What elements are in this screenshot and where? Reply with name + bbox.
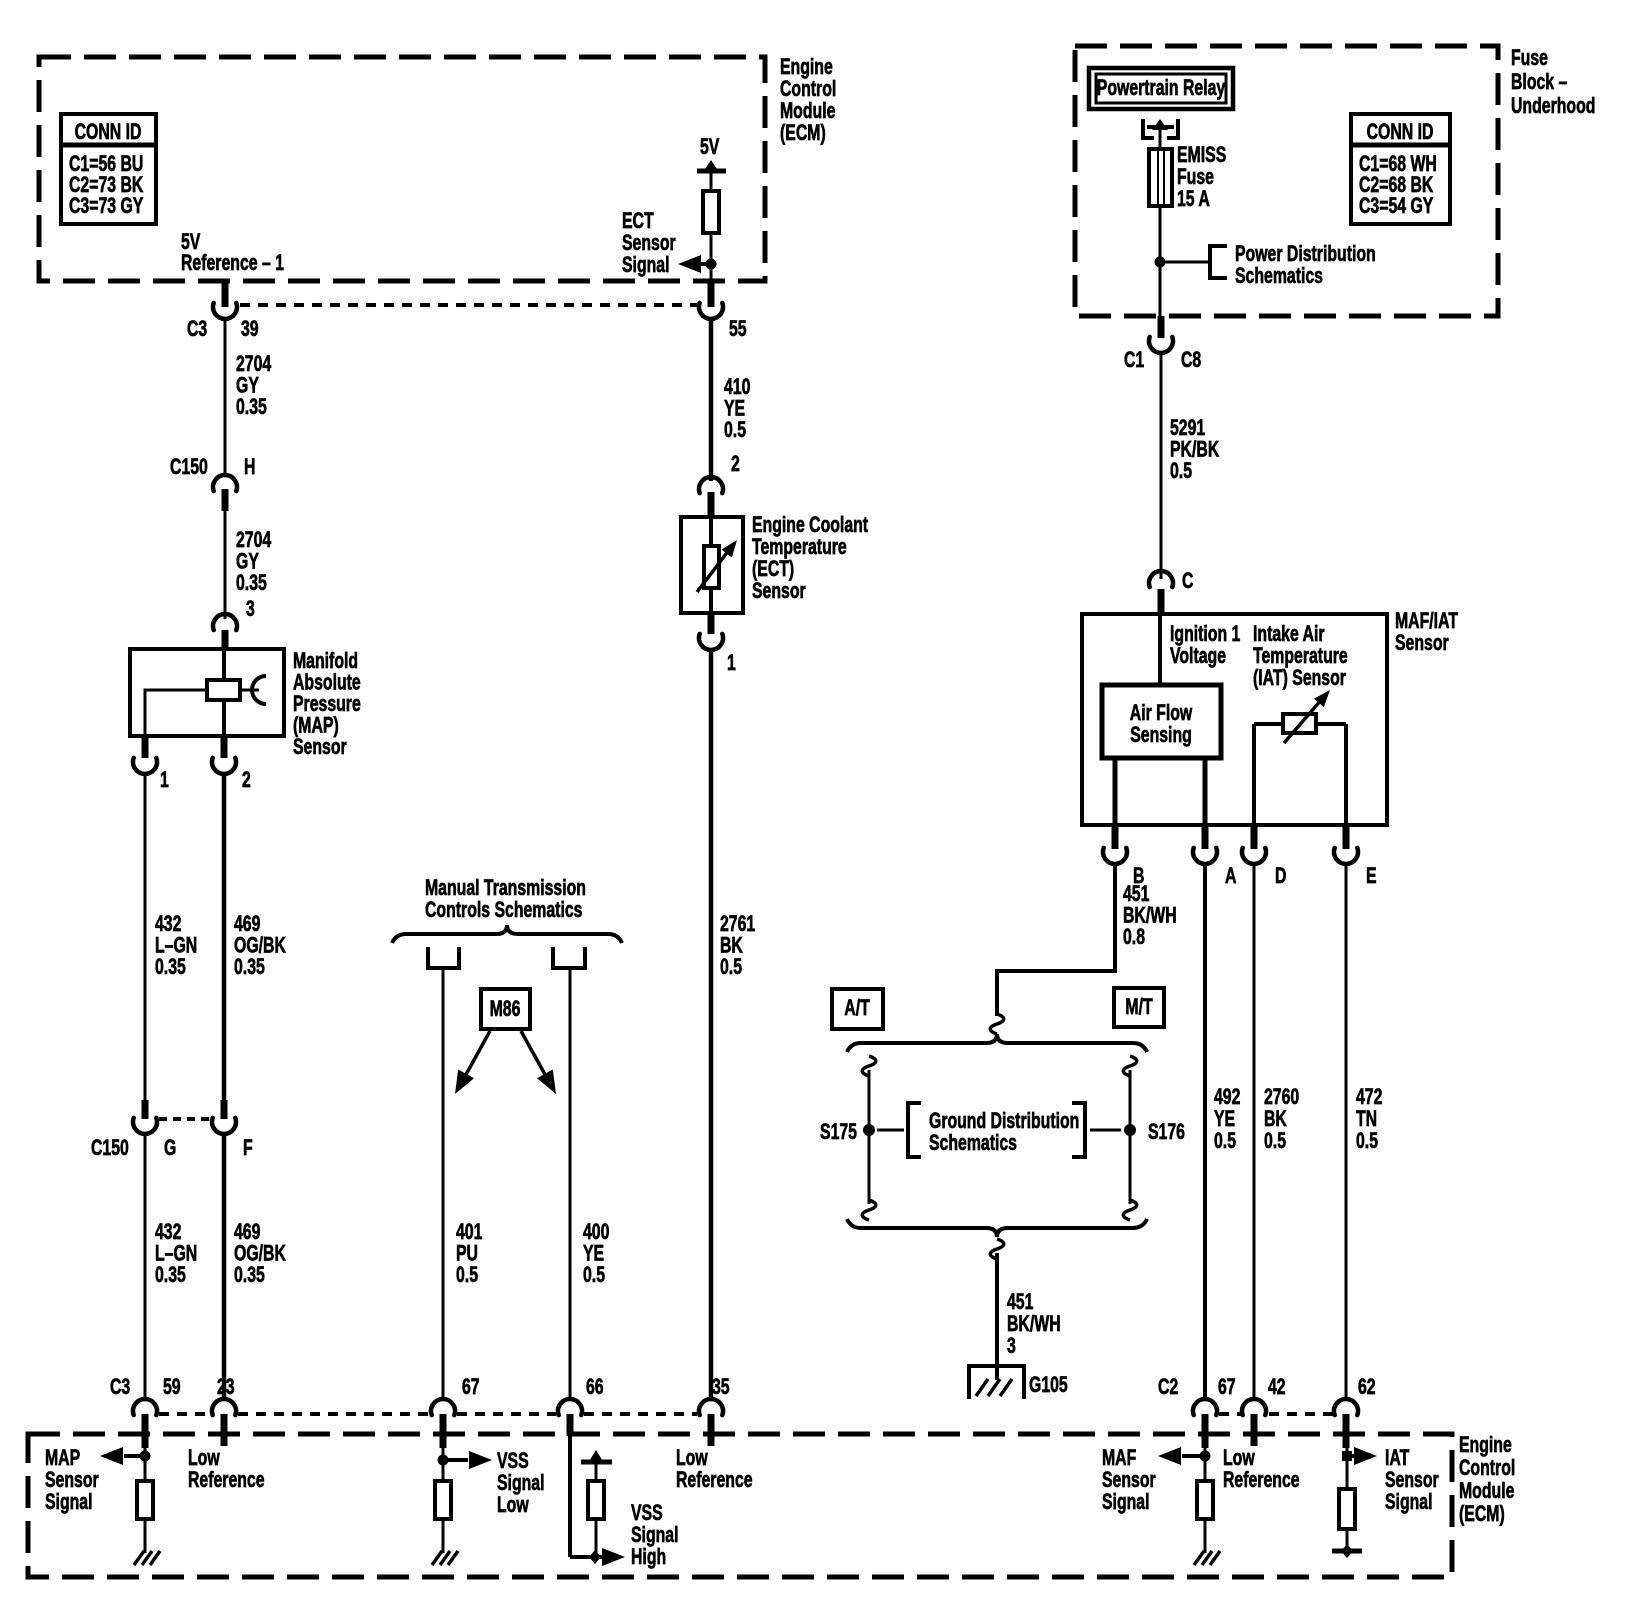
- connector half-box VSS high: [553, 947, 585, 968]
- connector dotted tie line (top): [240, 303, 697, 307]
- svg-text:C150: C150: [170, 456, 208, 480]
- svg-text:C3=54 GY: C3=54 GY: [1359, 195, 1434, 219]
- svg-text:Reference – 1: Reference – 1: [181, 252, 284, 276]
- svg-text:Schematics: Schematics: [929, 1132, 1017, 1156]
- svg-text:GY: GY: [236, 550, 259, 574]
- wire MAF resistor to ground: [1204, 1519, 1207, 1553]
- svg-text:Controls Schematics: Controls Schematics: [425, 899, 582, 923]
- ECM (top) dashed box: [39, 57, 765, 281]
- svg-text:Low: Low: [1223, 1447, 1255, 1471]
- ground MAF input: [1194, 1551, 1204, 1565]
- wire 401 PU 0.5: [442, 968, 445, 1399]
- wire 2704 GY 0.35 upper: [224, 319, 227, 477]
- svg-text:Temperature: Temperature: [752, 536, 847, 560]
- svg-text:Air Flow: Air Flow: [1130, 702, 1193, 726]
- brace ground distribution top: [847, 1034, 1147, 1052]
- svg-text:EMISS: EMISS: [1177, 144, 1226, 168]
- svg-text:Signal: Signal: [497, 1472, 545, 1496]
- svg-text:E: E: [1366, 865, 1377, 889]
- connector MAF pin D: [1251, 827, 1258, 849]
- svg-text:55: 55: [729, 318, 747, 342]
- MAF/IAT sensor box: [1082, 614, 1387, 825]
- MAP sensor signal branch: [144, 1447, 147, 1481]
- wire relay to fuse: [1159, 130, 1162, 149]
- ground G105: [969, 1366, 1024, 1399]
- svg-text:0.5: 0.5: [456, 1264, 478, 1288]
- svg-text:ECT: ECT: [622, 210, 654, 234]
- svg-text:469: 469: [234, 1221, 260, 1245]
- svg-text:0.8: 0.8: [1123, 926, 1145, 950]
- ECT thermistor element: [704, 546, 719, 588]
- wire S176 branch: [1123, 1056, 1137, 1076]
- svg-text:C3=73 GY: C3=73 GY: [69, 195, 144, 219]
- wire 410 YE 0.5: [709, 319, 714, 481]
- node power distribution junction: [1155, 257, 1166, 268]
- svg-text:432: 432: [155, 913, 181, 937]
- svg-text:Reference: Reference: [1223, 1469, 1300, 1493]
- svg-text:0.35: 0.35: [236, 396, 267, 420]
- connector C3 pin 55 (ECM): [708, 281, 715, 307]
- node S175: [863, 1124, 875, 1136]
- svg-text:66: 66: [586, 1376, 604, 1400]
- connector half-box VSS low: [428, 947, 459, 968]
- svg-text:Sensor: Sensor: [45, 1469, 99, 1493]
- wire MAP resistor to ground: [144, 1519, 147, 1553]
- svg-text:Underhood: Underhood: [1511, 95, 1595, 119]
- CONN ID table (fuse block): [1351, 114, 1450, 224]
- svg-text:451: 451: [1007, 1291, 1034, 1315]
- svg-text:472: 472: [1356, 1086, 1382, 1110]
- svg-text:2704: 2704: [236, 529, 272, 553]
- svg-text:0.35: 0.35: [234, 956, 265, 980]
- svg-text:(IAT) Sensor: (IAT) Sensor: [1253, 667, 1346, 691]
- tick S176 to bracket: [1090, 1129, 1121, 1132]
- wire 469 OG/BK upper: [222, 775, 227, 1100]
- wire 469 OG/BK lower: [222, 1135, 227, 1399]
- svg-text:3: 3: [1007, 1335, 1016, 1359]
- svg-text:0.35: 0.35: [236, 572, 267, 596]
- svg-text:0.5: 0.5: [724, 419, 746, 443]
- svg-text:Sensor: Sensor: [1395, 632, 1449, 656]
- A/T callout box: [832, 989, 883, 1029]
- svg-text:C3: C3: [110, 1376, 130, 1400]
- svg-text:Sensor: Sensor: [622, 232, 676, 256]
- wire 472 TN 0.5: [1345, 865, 1348, 1399]
- wire 432 L-GN lower: [144, 1135, 147, 1399]
- svg-text:BK/WH: BK/WH: [1123, 904, 1177, 928]
- wire to power distribution bracket: [1160, 261, 1209, 264]
- IAT thermistor network: [1252, 724, 1256, 827]
- svg-text:PK/BK: PK/BK: [1170, 438, 1219, 462]
- M86 callout box: [481, 989, 530, 1029]
- svg-text:0.5: 0.5: [1356, 1130, 1378, 1154]
- svg-text:Powertrain Relay: Powertrain Relay: [1097, 77, 1226, 101]
- connector C3 pin 39 (ECM): [222, 281, 229, 307]
- svg-text:Signal: Signal: [1385, 1491, 1433, 1515]
- ground MAP input: [134, 1551, 144, 1565]
- IAT bias rail: [1332, 1549, 1362, 1554]
- svg-text:A/T: A/T: [844, 997, 870, 1021]
- svg-text:67: 67: [1218, 1376, 1236, 1400]
- svg-text:L–GN: L–GN: [155, 1242, 197, 1266]
- wire air flow pin B internal: [1113, 758, 1118, 827]
- svg-text:2761: 2761: [720, 913, 756, 937]
- VSS signal high branch: [568, 1434, 572, 1557]
- arrow M86 right: [521, 1031, 548, 1080]
- resistor MAF input: [1197, 1481, 1213, 1519]
- wire 451 BK/WH 3 to ground: [990, 1239, 1004, 1259]
- svg-text:0.5: 0.5: [720, 956, 742, 980]
- svg-text:Manifold: Manifold: [293, 650, 358, 674]
- svg-text:0.5: 0.5: [1214, 1130, 1236, 1154]
- svg-text:0.35: 0.35: [155, 956, 186, 980]
- svg-text:(ECM): (ECM): [1459, 1503, 1505, 1527]
- svg-text:Ground Distribution: Ground Distribution: [929, 1110, 1079, 1134]
- wire MAP internal left: [145, 690, 207, 736]
- svg-text:Module: Module: [780, 100, 835, 124]
- wire air flow pin A internal: [1203, 758, 1208, 827]
- MAP port symbol: [252, 676, 266, 704]
- svg-text:1: 1: [727, 652, 736, 676]
- CONN ID table (ECM): [61, 114, 156, 224]
- svg-text:Block –: Block –: [1511, 71, 1568, 95]
- resistor MAP input: [137, 1481, 153, 1519]
- connector MAF pin B: [1112, 827, 1119, 849]
- svg-text:Low: Low: [497, 1494, 529, 1518]
- wire ignition feed internal: [1158, 616, 1162, 685]
- svg-text:Temperature: Temperature: [1253, 645, 1348, 669]
- svg-text:Engine Coolant: Engine Coolant: [752, 514, 869, 538]
- svg-text:Low: Low: [676, 1447, 708, 1471]
- svg-text:Module: Module: [1459, 1480, 1514, 1504]
- svg-text:VSS: VSS: [497, 1450, 529, 1474]
- connector dotted tie line (bottom right): [1219, 1412, 1241, 1416]
- wire 2761 BK 0.5: [709, 651, 714, 1399]
- svg-text:(ECM): (ECM): [780, 122, 826, 146]
- svg-text:BK/WH: BK/WH: [1007, 1313, 1061, 1337]
- svg-text:Intake Air: Intake Air: [1253, 623, 1325, 647]
- wire VSS low to ground: [442, 1519, 445, 1553]
- svg-text:62: 62: [1358, 1376, 1376, 1400]
- svg-text:Power Distribution: Power Distribution: [1235, 243, 1376, 267]
- svg-text:35: 35: [712, 1376, 730, 1400]
- svg-text:YE: YE: [724, 397, 745, 421]
- MAP pressure element: [207, 680, 240, 700]
- svg-text:C8: C8: [1181, 349, 1202, 373]
- svg-text:Manual Transmission: Manual Transmission: [425, 877, 586, 901]
- svg-text:MAP: MAP: [45, 1447, 80, 1471]
- node S176: [1124, 1124, 1136, 1136]
- bracket ground distribution left: [908, 1103, 921, 1157]
- IAT thermistor element: [1283, 714, 1316, 733]
- svg-text:5291: 5291: [1170, 417, 1206, 441]
- IAT sensor signal branch: [1346, 1447, 1349, 1489]
- svg-text:C: C: [1182, 570, 1194, 594]
- Fuse Block - Underhood dashed box: [1075, 46, 1498, 316]
- bracket ground distribution right: [1072, 1103, 1085, 1157]
- resistor VSS high: [595, 1462, 598, 1481]
- wire resistor to ECM border: [710, 233, 713, 283]
- svg-text:Ignition 1: Ignition 1: [1170, 623, 1241, 647]
- svg-text:410: 410: [724, 376, 750, 400]
- svg-text:PU: PU: [456, 1242, 478, 1266]
- svg-text:5V: 5V: [700, 136, 720, 160]
- svg-text:YE: YE: [583, 1242, 604, 1266]
- wire IAT resistor to rail: [1346, 1529, 1349, 1551]
- connector C150 tie dashes: [159, 1117, 211, 1121]
- svg-text:G: G: [164, 1137, 176, 1161]
- svg-text:CONN ID: CONN ID: [75, 121, 142, 145]
- svg-text:G105: G105: [1029, 1374, 1068, 1398]
- svg-text:Sensor: Sensor: [293, 736, 347, 760]
- connector C150 pin G: [142, 1100, 149, 1119]
- svg-text:Sensor: Sensor: [1385, 1469, 1439, 1493]
- M/T callout box: [1114, 988, 1164, 1027]
- svg-text:0.35: 0.35: [234, 1264, 265, 1288]
- svg-text:3: 3: [246, 598, 255, 622]
- svg-text:492: 492: [1214, 1086, 1240, 1110]
- svg-text:0.5: 0.5: [1170, 460, 1192, 484]
- connector MAP pin 1: [142, 736, 149, 758]
- wire S175 branch: [862, 1056, 876, 1076]
- relay output clip: [1143, 119, 1154, 138]
- svg-text:(ECT): (ECT): [752, 558, 794, 582]
- svg-text:MAF/IAT: MAF/IAT: [1395, 610, 1458, 634]
- ECM (bottom) dashed box: [28, 1434, 1452, 1577]
- connector dotted tie line (bottom left): [159, 1412, 210, 1416]
- svg-text:Engine: Engine: [780, 56, 833, 80]
- svg-text:23: 23: [217, 1376, 235, 1400]
- MAP sensor box: [130, 649, 284, 736]
- svg-text:59: 59: [163, 1376, 181, 1400]
- svg-text:F: F: [243, 1137, 253, 1161]
- wire 5V to resistor: [710, 172, 713, 191]
- brace ground distribution bottom: [847, 1219, 1147, 1237]
- svg-text:H: H: [244, 456, 255, 480]
- ground VSS low: [432, 1551, 442, 1565]
- connector ECT pin 1: [708, 613, 715, 634]
- arrow M86 left: [463, 1031, 490, 1080]
- svg-text:A: A: [1225, 865, 1237, 889]
- svg-text:Fuse: Fuse: [1177, 166, 1214, 190]
- svg-text:TN: TN: [1356, 1108, 1377, 1132]
- ECT sensor box: [681, 517, 743, 613]
- svg-text:Signal: Signal: [631, 1524, 679, 1548]
- svg-text:2704: 2704: [236, 353, 272, 377]
- svg-text:451: 451: [1123, 883, 1150, 907]
- svg-text:42: 42: [1268, 1376, 1286, 1400]
- svg-text:OG/BK: OG/BK: [234, 934, 286, 958]
- Air Flow Sensing box: [1102, 685, 1221, 758]
- svg-text:2: 2: [242, 769, 251, 793]
- svg-text:CONN ID: CONN ID: [1367, 121, 1434, 145]
- svg-text:High: High: [631, 1546, 666, 1570]
- ECT variable arrow: [697, 550, 729, 592]
- svg-text:2: 2: [731, 453, 740, 477]
- wire 2760 BK 0.5: [1253, 865, 1256, 1399]
- svg-text:BK: BK: [1264, 1108, 1287, 1132]
- svg-text:39: 39: [241, 318, 259, 342]
- svg-text:Absolute: Absolute: [293, 671, 361, 695]
- wire MAP internal right: [240, 689, 259, 692]
- svg-text:Signal: Signal: [1102, 1491, 1150, 1515]
- brace manual transmission: [392, 925, 622, 943]
- svg-text:469: 469: [234, 913, 260, 937]
- svg-text:Signal: Signal: [622, 254, 670, 278]
- svg-text:0.5: 0.5: [1264, 1130, 1286, 1154]
- svg-text:401: 401: [456, 1221, 483, 1245]
- svg-text:Fuse: Fuse: [1511, 47, 1548, 71]
- svg-text:1: 1: [160, 769, 169, 793]
- wire fuse to connector C1: [1159, 206, 1162, 316]
- connector MAF pin E: [1343, 827, 1350, 849]
- svg-text:C150: C150: [91, 1137, 129, 1161]
- wire MAP internal bottom: [222, 699, 226, 736]
- wire ECT signal arrow: [695, 262, 711, 266]
- svg-text:Sensing: Sensing: [1130, 724, 1192, 748]
- tick S175 to bracket: [877, 1129, 904, 1132]
- svg-text:Engine: Engine: [1459, 1434, 1512, 1458]
- svg-text:C3: C3: [187, 318, 207, 342]
- svg-text:VSS: VSS: [631, 1502, 663, 1526]
- connector MAF pin A: [1202, 827, 1209, 849]
- wire 451 BK/WH 0.8: [1113, 865, 1117, 971]
- svg-text:IAT: IAT: [1385, 1447, 1410, 1471]
- svg-text:Sensor: Sensor: [752, 580, 806, 604]
- svg-text:C2: C2: [1158, 1376, 1178, 1400]
- svg-text:M/T: M/T: [1125, 996, 1153, 1020]
- svg-text:Reference: Reference: [188, 1469, 265, 1493]
- svg-text:L–GN: L–GN: [155, 934, 197, 958]
- wire 492 YE 0.5: [1203, 865, 1207, 1399]
- svg-text:Schematics: Schematics: [1235, 265, 1323, 289]
- svg-text:M86: M86: [490, 998, 521, 1022]
- svg-text:Pressure: Pressure: [293, 693, 361, 717]
- wire 2704 GY 0.35 lower: [224, 511, 227, 619]
- resistor VSS low: [435, 1481, 451, 1519]
- svg-text:Sensor: Sensor: [1102, 1469, 1156, 1493]
- VSS signal low branch: [442, 1447, 445, 1481]
- resistor IAT input: [1339, 1489, 1355, 1529]
- connector C1 pin C8 (fuse block): [1158, 316, 1165, 338]
- svg-text:432: 432: [155, 1221, 181, 1245]
- svg-text:Control: Control: [1459, 1457, 1515, 1481]
- IAT variable arrow: [1284, 699, 1322, 743]
- svg-text:Voltage: Voltage: [1170, 645, 1226, 669]
- svg-text:C1: C1: [1124, 349, 1145, 373]
- svg-text:15 A: 15 A: [1177, 188, 1210, 212]
- svg-text:GY: GY: [236, 374, 259, 398]
- svg-text:Signal: Signal: [45, 1491, 93, 1515]
- wire MAP internal top: [222, 651, 226, 681]
- resistor ECT pull-up: [703, 191, 719, 233]
- connector MAP pin 2: [221, 736, 228, 758]
- svg-text:Control: Control: [780, 78, 836, 102]
- wire 5291 PK/BK 0.5: [1160, 354, 1163, 579]
- connector C150 pin F: [221, 1100, 228, 1119]
- svg-text:YE: YE: [1214, 1108, 1235, 1132]
- bracket power distribution: [1210, 246, 1227, 278]
- svg-text:2760: 2760: [1264, 1086, 1299, 1110]
- fuse EMISS 15 A: [1149, 149, 1172, 206]
- svg-text:Low: Low: [188, 1447, 220, 1471]
- svg-text:BK: BK: [720, 934, 743, 958]
- wire 400 YE 0.5: [569, 968, 572, 1399]
- VSS high bias bar: [581, 1460, 612, 1465]
- MAF sensor signal branch: [1204, 1447, 1207, 1481]
- node ECT sensor signal junction: [706, 259, 717, 270]
- svg-text:Reference: Reference: [676, 1469, 753, 1493]
- svg-text:OG/BK: OG/BK: [234, 1242, 286, 1266]
- svg-text:400: 400: [583, 1221, 609, 1245]
- svg-text:0.35: 0.35: [155, 1264, 186, 1288]
- svg-text:S175: S175: [820, 1121, 857, 1145]
- Powertrain Relay box: [1089, 68, 1233, 109]
- svg-text:67: 67: [462, 1376, 480, 1400]
- wire ECT internal: [709, 517, 713, 613]
- svg-text:0.5: 0.5: [583, 1264, 605, 1288]
- svg-text:MAF: MAF: [1102, 1447, 1136, 1471]
- wire 432 L-GN upper: [144, 775, 147, 1100]
- svg-text:D: D: [1275, 865, 1287, 889]
- svg-text:(MAP): (MAP): [293, 714, 339, 738]
- svg-text:S176: S176: [1148, 1121, 1185, 1145]
